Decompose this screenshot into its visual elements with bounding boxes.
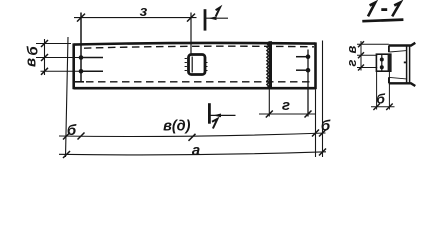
left embed plate + extension to dim з bbox=[80, 13, 82, 82]
svg-text:в: в bbox=[344, 45, 359, 53]
ext line L1 bbox=[66, 37, 69, 157]
washer weld teeth left bbox=[185, 59, 187, 71]
svg-text:б: б bbox=[321, 118, 331, 135]
title underline bbox=[362, 20, 403, 22]
label 1 bottom bbox=[212, 119, 217, 129]
washer weld teeth right bbox=[205, 63, 207, 71]
section plate dot 2 bbox=[380, 65, 384, 69]
left anchor bar A1 bbox=[81, 57, 103, 59]
left anchor dot A2 bbox=[79, 69, 84, 74]
svg-text:з: з bbox=[140, 3, 148, 20]
section plate dot 1 bbox=[380, 58, 384, 62]
section flag top bbox=[204, 9, 207, 30]
right anchor bar B1 bbox=[296, 56, 308, 58]
corrugated joint (zigzag bar) bbox=[269, 41, 272, 87]
section plate bbox=[376, 54, 390, 71]
channel flange left tips bbox=[388, 46, 390, 84]
svg-text:г: г bbox=[282, 97, 290, 114]
tick left-3 bbox=[41, 68, 48, 75]
hidden top edge (dashed) bbox=[84, 46, 314, 48]
left anchor dot A1 bbox=[79, 55, 84, 60]
dim з line bbox=[74, 17, 197, 19]
hidden bottom edge solid start bbox=[74, 81, 84, 83]
svg-text:б: б bbox=[25, 46, 42, 56]
tick з left bbox=[77, 14, 85, 22]
section left dim column bbox=[360, 41, 362, 71]
dim row1 line bbox=[59, 133, 326, 136]
right embed plate + extension to dim г bbox=[307, 50, 309, 117]
section bottom dim bbox=[376, 71, 378, 109]
channel bottom flange bbox=[389, 83, 416, 86]
right anchor dot B1 bbox=[306, 54, 311, 59]
section plate hatch band bbox=[388, 55, 392, 71]
svg-text:г: г bbox=[344, 59, 359, 66]
washer inner left line bbox=[191, 57, 193, 73]
dim row2 line (а) bbox=[59, 152, 326, 155]
hidden bottom edge (dashed) bbox=[86, 81, 314, 83]
middle embedded washer plate bbox=[189, 55, 206, 75]
ext line dot1 bbox=[36, 57, 86, 59]
left anchor bar A2 bbox=[81, 70, 103, 72]
section 1-1 title stroke 1b bbox=[392, 3, 400, 17]
channel top flange bbox=[389, 43, 416, 46]
svg-text:б: б bbox=[376, 91, 385, 107]
channel web weld nub bbox=[404, 61, 407, 63]
tick left-2 bbox=[41, 54, 48, 61]
right anchor bar B2 bbox=[296, 69, 308, 71]
left dim column bbox=[44, 39, 46, 75]
tick з right bbox=[187, 14, 195, 22]
dim г line bbox=[259, 113, 316, 115]
svg-text:б: б bbox=[67, 122, 77, 139]
ext beam right corner down bbox=[315, 89, 317, 157]
section trace line bbox=[190, 13, 192, 55]
section 1-1 title stroke 1a bbox=[368, 3, 375, 17]
beam left edge bbox=[72, 43, 75, 89]
channel web inner line bbox=[409, 47, 411, 83]
ext line top edge bbox=[36, 43, 71, 45]
right anchor dot B2 bbox=[306, 68, 311, 73]
label 1 top bbox=[216, 7, 220, 16]
tick left-1 bbox=[41, 40, 48, 47]
svg-text:в(д): в(д) bbox=[163, 119, 191, 135]
beam top edge bbox=[74, 43, 316, 45]
ext line dot2 bbox=[41, 70, 87, 72]
section plate center line bbox=[381, 55, 383, 71]
svg-text:а: а bbox=[192, 142, 200, 159]
channel flange inner lines bbox=[390, 51, 407, 79]
beam right edge bbox=[314, 42, 317, 89]
beam bottom edge bbox=[74, 87, 316, 90]
ext line right outer bbox=[322, 41, 324, 158]
ext zigzag down bbox=[268, 87, 270, 116]
section 1-1 title dash bbox=[381, 8, 387, 11]
zigzag teeth bbox=[267, 42, 269, 88]
section flag bottom bbox=[208, 103, 211, 124]
svg-text:в: в bbox=[23, 58, 40, 67]
channel web outer line bbox=[406, 47, 408, 83]
